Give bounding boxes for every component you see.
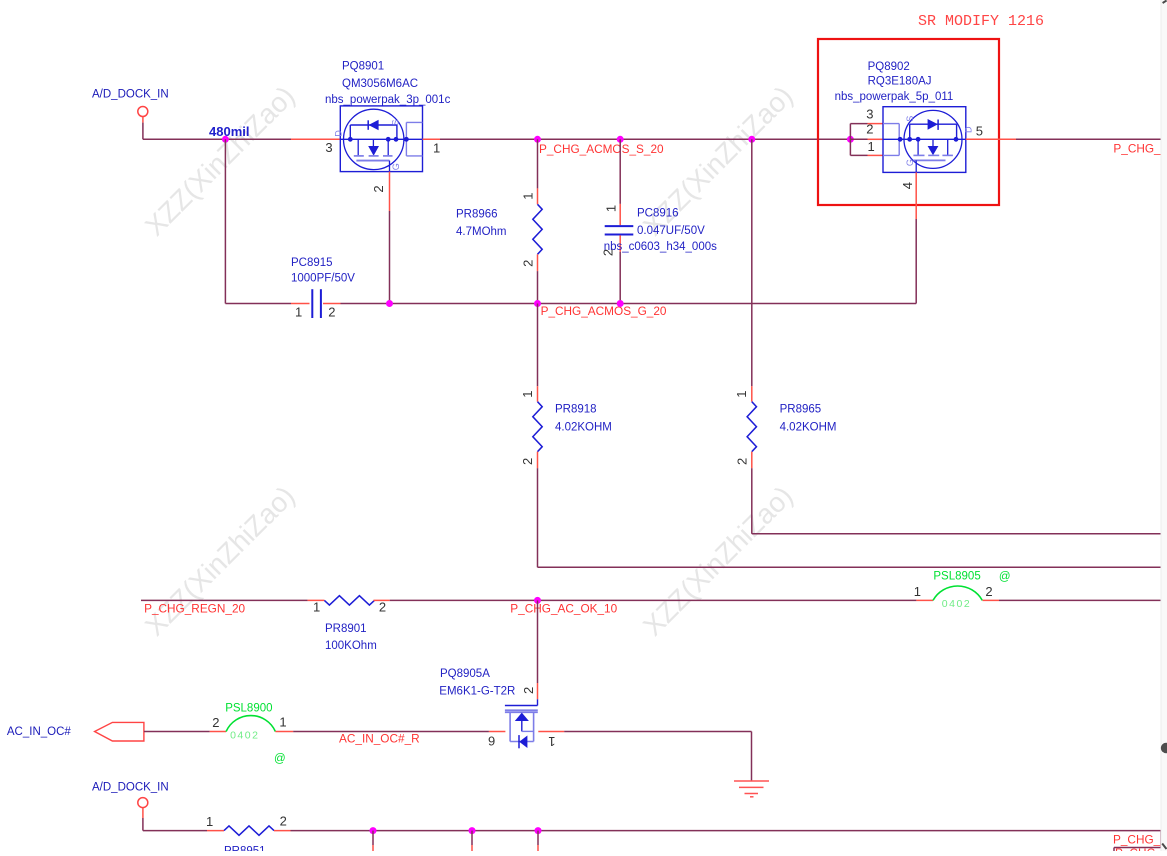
pin 1 label PC8916 (rotated) bbox=[603, 205, 618, 212]
solder-link PSL8900 0402 bbox=[225, 702, 285, 765]
svg-text:2: 2 bbox=[866, 122, 873, 137]
corner mark bottom right bbox=[1162, 844, 1166, 850]
svg-text:PR8966: PR8966 bbox=[456, 209, 498, 221]
svg-text:PSL8900: PSL8900 bbox=[225, 702, 272, 714]
transistor PQ8901 QM3056M6AC bbox=[325, 61, 451, 172]
wire REGN junction down to PQ8905A pin2 bbox=[537, 600, 539, 699]
wire PQ8902 pin4 down to G rail corner bbox=[915, 172, 917, 303]
pin 2 label PSL8900 bbox=[212, 715, 219, 730]
junction node bottom rail 3 bbox=[535, 827, 542, 851]
svg-text:AC_IN_OC#: AC_IN_OC# bbox=[7, 726, 72, 738]
svg-text:P_CHG_A: P_CHG_A bbox=[1113, 142, 1167, 156]
svg-text:D: D bbox=[334, 130, 344, 137]
junction node bottom rail 2 bbox=[469, 827, 476, 851]
svg-text:2: 2 bbox=[212, 715, 219, 730]
svg-text:1: 1 bbox=[520, 193, 535, 200]
svg-text:@: @ bbox=[274, 753, 286, 765]
svg-text:2: 2 bbox=[521, 260, 536, 267]
wire REGN rail PSL8905 to right edge bbox=[999, 599, 1167, 601]
wire bottom rail bbox=[291, 830, 1162, 832]
svg-text:4.02KOHM: 4.02KOHM bbox=[780, 422, 837, 434]
svg-text:1: 1 bbox=[734, 391, 749, 398]
pin 4 label PQ8902 (rotated) bbox=[900, 182, 915, 189]
resistor PR8918 4.02KOHM bbox=[533, 304, 612, 568]
pin 2 label PC8916 (rotated) bbox=[601, 249, 616, 256]
svg-text:2: 2 bbox=[521, 687, 536, 694]
pin 5 label PQ8902 bbox=[976, 124, 983, 139]
svg-text:1: 1 bbox=[868, 139, 875, 154]
svg-text:0402: 0402 bbox=[230, 730, 259, 742]
pin 2 label PQ8901 (rotated) bbox=[371, 185, 386, 192]
net label P_CHG_ACMOS_G_20 bbox=[541, 304, 667, 318]
svg-text:PR8901: PR8901 bbox=[325, 623, 367, 635]
svg-text:P_CHG_AC_OK_10: P_CHG_AC_OK_10 bbox=[510, 602, 617, 616]
junction node REGN rail / PQ8905A gate bbox=[534, 597, 541, 604]
net label P_CHG_AC_OK_10 bbox=[510, 602, 617, 616]
svg-text:100KOhm: 100KOhm bbox=[325, 640, 377, 652]
wire 480mil junction down to G rail bbox=[224, 139, 226, 303]
svg-text:@: @ bbox=[999, 571, 1011, 583]
junction node bottom rail 1 bbox=[370, 827, 377, 851]
svg-text:1: 1 bbox=[206, 814, 213, 829]
svg-text:3: 3 bbox=[325, 140, 332, 155]
svg-text:PSL8905: PSL8905 bbox=[933, 570, 980, 582]
svg-text:0.047UF/50V: 0.047UF/50V bbox=[637, 225, 705, 237]
svg-text:nbs_c0603_h34_000s: nbs_c0603_h34_000s bbox=[604, 241, 717, 253]
svg-text:PR8951: PR8951 bbox=[224, 846, 266, 851]
junction node 480mil bbox=[222, 136, 229, 143]
resistor PR8966 4.7MOhm bbox=[456, 139, 542, 303]
red highlight box around PQ8902 bbox=[818, 39, 999, 205]
svg-text:PC8916: PC8916 bbox=[637, 207, 679, 219]
pin 2 label PC8915 bbox=[328, 305, 335, 320]
junction node top rail / PR8965 bbox=[748, 136, 755, 143]
pin 2 label PR8951 bbox=[280, 813, 287, 828]
svg-text:2: 2 bbox=[379, 599, 386, 614]
svg-text:6: 6 bbox=[488, 733, 495, 748]
svg-text:2: 2 bbox=[601, 249, 616, 256]
pin 1 label PR8901 bbox=[313, 600, 320, 615]
svg-text:PR8918: PR8918 bbox=[555, 404, 597, 416]
resistor PR8901 100KOhm bbox=[308, 596, 390, 652]
ground symbol bbox=[734, 781, 769, 797]
svg-text:1: 1 bbox=[603, 205, 618, 212]
wire PQ8905A pin1 to ground corner bbox=[538, 732, 751, 782]
transistor PQ8905A EM6K1-G-T2R bbox=[439, 668, 538, 748]
svg-text:2: 2 bbox=[280, 813, 287, 828]
svg-text:S: S bbox=[905, 116, 915, 122]
wire PQ8901 pin1 to PQ8902 bbox=[423, 138, 851, 140]
wire PQ8901 pin2 down to G rail bbox=[389, 172, 391, 304]
svg-text:4: 4 bbox=[900, 182, 915, 189]
svg-text:nbs_powerpak_3p_001c: nbs_powerpak_3p_001c bbox=[325, 94, 451, 106]
solder-link PSL8905 0402 bbox=[916, 570, 1010, 610]
capacitor PC8915 1000PF/50V bbox=[291, 257, 355, 318]
svg-text:1: 1 bbox=[295, 305, 302, 320]
svg-text:2: 2 bbox=[520, 458, 535, 465]
svg-text:1: 1 bbox=[313, 600, 320, 615]
pin 1 label PR8951 bbox=[206, 814, 213, 829]
svg-text:5: 5 bbox=[976, 124, 983, 139]
net label P_CHG_REGN_20 bbox=[144, 602, 245, 616]
pin 2 label PQ8905A (rotated) bbox=[521, 687, 536, 694]
label 480mil bbox=[209, 124, 249, 139]
svg-text:1: 1 bbox=[433, 141, 440, 156]
wire PR8965 to right edge bbox=[752, 533, 1167, 535]
capacitor PC8916 0.047UF/50V bbox=[604, 139, 717, 303]
wire REGN rail PR8901 to PSL8905 bbox=[390, 599, 917, 601]
wire port to PSL8900 bbox=[144, 731, 226, 733]
pin 2 label PR8901 bbox=[379, 599, 386, 614]
svg-text:PQ8902: PQ8902 bbox=[868, 61, 910, 73]
net label P_CHG_ bottom right bbox=[1113, 833, 1167, 847]
pin 3 label PQ8901 bbox=[325, 140, 332, 155]
wire bottom rail right corner bbox=[1114, 831, 1161, 851]
svg-text:PQ8901: PQ8901 bbox=[342, 61, 384, 73]
junction node top rail / PR8966 bbox=[534, 136, 541, 143]
svg-text:0402: 0402 bbox=[942, 598, 971, 610]
svg-text:2: 2 bbox=[328, 305, 335, 320]
svg-text:D: D bbox=[964, 126, 974, 133]
svg-text:P_CHG_REGN_20: P_CHG_REGN_20 bbox=[144, 602, 245, 616]
pin 1 label PR8965 (rotated) bbox=[734, 391, 749, 398]
svg-text:EM6K1-G-T2R: EM6K1-G-T2R bbox=[439, 686, 515, 698]
junction node G rail / PR8918 bbox=[534, 300, 541, 307]
net label P_CHG_ACMOS_S_20 bbox=[539, 142, 664, 156]
port A/D_DOCK_IN (bottom) bbox=[92, 782, 169, 808]
svg-text:2: 2 bbox=[985, 584, 992, 599]
svg-text:A/D_DOCK_IN: A/D_DOCK_IN bbox=[92, 89, 169, 101]
svg-text:4.02KOHM: 4.02KOHM bbox=[555, 422, 612, 434]
corner mark top right bbox=[1163, 1, 1167, 4]
pin 2 label PQ8902 bbox=[866, 122, 873, 137]
svg-text:PC8915: PC8915 bbox=[291, 257, 333, 269]
wire bottom port down and right bbox=[143, 808, 207, 831]
watermark XZZ(XinZhiZao) at 219.5,160.5 bbox=[139, 80, 301, 242]
net label AC_IN_OC#_R bbox=[339, 731, 420, 745]
svg-text:P_CHG_A: P_CHG_A bbox=[1113, 833, 1167, 847]
resistor PR8965 4.02KOHM bbox=[747, 139, 836, 534]
svg-text:nbs_powerpak_5p_011: nbs_powerpak_5p_011 bbox=[835, 91, 954, 103]
svg-text:QM3056M6AC: QM3056M6AC bbox=[342, 78, 418, 90]
svg-text:G: G bbox=[391, 163, 401, 170]
pin 1 label PQ8905A (rotated 180) bbox=[548, 734, 555, 749]
net label bottom right clipped bbox=[1115, 846, 1156, 856]
pin 1 label PC8915 bbox=[295, 305, 302, 320]
svg-text:2: 2 bbox=[371, 185, 386, 192]
wire G rail P_CHG_ACMOS_G_20 bbox=[225, 303, 916, 305]
svg-text:1: 1 bbox=[520, 391, 535, 398]
wire port down to top rail bbox=[142, 117, 144, 140]
watermark XZZ(XinZhiZao) at 717.5,160.5 bbox=[637, 80, 799, 242]
junction node G rail / PQ8901 gate bbox=[386, 300, 393, 307]
svg-text:XZZ(XinZhiZao): XZZ(XinZhiZao) bbox=[139, 480, 301, 642]
pin 6 label PQ8905A (rotated 180) bbox=[488, 733, 495, 748]
wire top rail from port to PQ8901 pin3 bbox=[143, 138, 340, 140]
pin 1 label PR8966 (rotated) bbox=[520, 193, 535, 200]
gray dot right edge (scrollbar thumb) bbox=[1161, 743, 1167, 753]
svg-text:1: 1 bbox=[279, 715, 286, 730]
pin 2 label PR8965 (rotated) bbox=[734, 458, 749, 465]
svg-text:1000PF/50V: 1000PF/50V bbox=[291, 272, 355, 284]
wire PSL8900 to PQ8905A bbox=[275, 731, 505, 733]
svg-text:S: S bbox=[390, 120, 400, 126]
svg-text:G: G bbox=[905, 159, 915, 166]
watermark XZZ(XinZhiZao) at 717.5,560.5 bbox=[637, 480, 799, 642]
scrollbar strip right edge bbox=[1161, 0, 1167, 851]
pin 1 label PSL8905 bbox=[914, 584, 921, 599]
svg-text:XZZ(XinZhiZao): XZZ(XinZhiZao) bbox=[637, 480, 799, 642]
svg-text:P_CHG_ACMOS_G_20: P_CHG_ACMOS_G_20 bbox=[541, 304, 667, 318]
pin 1 label PQ8901 bbox=[433, 141, 440, 156]
resistor PR8951 (bottom, clipped) bbox=[207, 826, 291, 856]
transistor PQ8902 RQ3E180AJ bbox=[835, 61, 974, 172]
wire PR8918 to right edge bbox=[538, 566, 1167, 568]
svg-text:PR8965: PR8965 bbox=[780, 404, 822, 416]
port A/D_DOCK_IN (top) bbox=[92, 89, 169, 117]
watermark XZZ(XinZhiZao) at 219.5,560.5 bbox=[139, 480, 301, 642]
port AC_IN_OC# bbox=[7, 722, 144, 741]
svg-text:AC_IN_OC#_R: AC_IN_OC#_R bbox=[339, 731, 420, 745]
pin 1 label PQ8902 bbox=[868, 139, 875, 154]
pin 1 label PR8918 (rotated) bbox=[520, 391, 535, 398]
annotation SR MODIFY 1216 bbox=[918, 13, 1044, 30]
pin 1 label PSL8900 bbox=[279, 715, 286, 730]
wire PQ8902 pin5 to right edge bbox=[966, 138, 1167, 140]
svg-text:SR MODIFY 1216: SR MODIFY 1216 bbox=[918, 13, 1044, 30]
wire PQ8902 left pin bracket bbox=[850, 124, 883, 156]
pin 2 label PR8918 (rotated) bbox=[520, 458, 535, 465]
svg-text:XZZ(XinZhiZao): XZZ(XinZhiZao) bbox=[139, 80, 301, 242]
net label P_CHG_ (right edge, clipped) bbox=[1113, 142, 1167, 156]
svg-text:P_CHG: P_CHG bbox=[1115, 846, 1156, 851]
junction node G rail / PC8916 bbox=[617, 300, 624, 307]
svg-text:480mil: 480mil bbox=[209, 124, 249, 139]
pin 3 label PQ8902 bbox=[866, 106, 873, 121]
junction node top rail / PQ8902 bracket bbox=[847, 136, 854, 143]
svg-text:RQ3E180AJ: RQ3E180AJ bbox=[868, 76, 932, 88]
junction node top rail / PC8916 bbox=[617, 136, 624, 143]
svg-text:P_CHG_ACMOS_S_20: P_CHG_ACMOS_S_20 bbox=[539, 142, 664, 156]
pin 2 label PSL8905 bbox=[985, 584, 992, 599]
svg-text:4.7MOhm: 4.7MOhm bbox=[456, 226, 507, 238]
wire REGN rail left of PR8901 bbox=[141, 599, 308, 601]
svg-text:1: 1 bbox=[914, 584, 921, 599]
pin 2 label PR8966 (rotated) bbox=[521, 260, 536, 267]
svg-text:2: 2 bbox=[734, 458, 749, 465]
svg-text:PQ8905A: PQ8905A bbox=[440, 668, 490, 680]
svg-text:A/D_DOCK_IN: A/D_DOCK_IN bbox=[92, 782, 169, 794]
svg-text:3: 3 bbox=[866, 106, 873, 121]
svg-text:1: 1 bbox=[548, 734, 555, 749]
